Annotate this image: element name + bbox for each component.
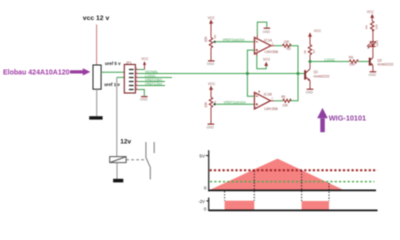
wire VREF1 stub: [138, 85, 165, 87]
wire VREF2 from R2 wiper to IC1A: [215, 41, 254, 43]
switch contact: [146, 142, 154, 179]
svg-text:330: 330: [374, 24, 378, 29]
LED above Q2: [367, 39, 379, 48]
svg-text:VCC: VCC: [367, 10, 375, 14]
upper axis vertical: [208, 150, 210, 191]
wire IC1B output to R5: [274, 100, 283, 102]
dotted vertical pulse2 right: [328, 183, 330, 201]
svg-text:5V: 5V: [199, 154, 206, 159]
svg-text:vcc 12 v: vcc 12 v: [83, 15, 110, 22]
junction node at x=247.4: [246, 72, 249, 75]
waveform chart: [198, 150, 377, 212]
junction node Q1 collector: [309, 60, 312, 63]
wire VREF2 stub: [138, 81, 165, 83]
wire relay to ground: [116, 163, 118, 179]
wire VREF1 from R1 wiper to IC1B: [215, 103, 254, 105]
wiper arrow: [213, 41, 216, 44]
op-amp IC1A: [247, 22, 278, 73]
5V tick: [206, 155, 209, 157]
output stub: [271, 45, 275, 47]
wiper arrow: [213, 103, 216, 106]
svg-text:LMV358: LMV358: [265, 50, 278, 54]
sensor block (rectangle): [93, 65, 101, 89]
svg-text:VCC: VCC: [208, 82, 216, 86]
transistor Q1: [304, 62, 329, 95]
svg-text:GND: GND: [140, 98, 148, 102]
svg-text:LOGIC: LOGIC: [324, 58, 335, 62]
power top pin to GND bracket: [256, 35, 258, 38]
VCC symbol above connector: [138, 57, 149, 69]
top input wire up to bus junction: [247, 74, 254, 97]
wire IC1A output to R3: [275, 45, 283, 47]
wire down to relay: [116, 77, 118, 156]
svg-text:R3: R3: [287, 47, 291, 51]
wire R3 to junction: [290, 46, 298, 74]
svg-text:VCC: VCC: [141, 57, 149, 61]
trimmer R1 column: [204, 82, 217, 130]
svg-text:R4: R4: [365, 25, 369, 29]
VCC above R4: [371, 16, 373, 21]
svg-text:IC1B: IC1B: [264, 93, 273, 97]
svg-text:10K: 10K: [204, 101, 208, 108]
resistor R1 zigzag: [209, 97, 212, 107]
svg-text:R5: R5: [281, 95, 285, 99]
lower baseline: [209, 209, 378, 211]
svg-text:mmbt2222: mmbt2222: [314, 74, 330, 78]
ground bar (black) under sensor block: [89, 116, 102, 119]
svg-text:LMV358: LMV358: [264, 107, 277, 111]
svg-text:GND: GND: [306, 91, 314, 95]
svg-text:Q1: Q1: [314, 70, 319, 74]
resistor R5: [283, 99, 292, 102]
svg-text:LED1: LED1: [375, 39, 379, 46]
wire VCC red from label to sensor block: [96, 25, 98, 66]
svg-text:GND: GND: [369, 73, 377, 77]
svg-text:2K: 2K: [303, 50, 307, 54]
dotted vertical pulse1 right: [253, 171, 255, 201]
resistor R6: [349, 60, 358, 63]
svg-text:JP1: JP1: [126, 61, 132, 65]
dashed link relay to switch: [126, 159, 144, 161]
lower axis vertical: [208, 198, 210, 212]
svg-text:WIG-10101: WIG-10101: [329, 113, 366, 122]
wire SIGNAL bus: [138, 73, 304, 75]
svg-text:VREF2(pk10v): VREF2(pk10v): [222, 38, 244, 42]
pulse 2: [302, 201, 329, 210]
resistor R2 zigzag: [209, 38, 212, 48]
-2V tick: [206, 200, 208, 202]
svg-text:uref 5 v: uref 5 v: [105, 61, 121, 66]
wire LOGIC to R6: [310, 61, 349, 63]
wire uref5 green to connector: [101, 71, 124, 73]
svg-text:VREF1(pk10v): VREF1(pk10v): [224, 101, 246, 105]
svg-text:Elobau 424A10A120: Elobau 424A10A120: [3, 70, 70, 77]
svg-text:12v: 12v: [120, 139, 131, 146]
red dashed threshold: [210, 169, 378, 171]
wire R6 to Q2 base: [358, 61, 369, 63]
svg-text:R6: R6: [349, 55, 353, 59]
GND under Q1: [307, 88, 314, 90]
triangle wave fill: [210, 159, 344, 190]
output stub: [271, 100, 275, 102]
ground bar (black) under relay: [113, 179, 123, 183]
svg-text:R2: R2: [213, 34, 217, 38]
input marks: [256, 41, 258, 43]
svg-text:uref 1 v: uref 1 v: [104, 82, 120, 87]
svg-text:R7: R7: [312, 49, 316, 53]
connector pin numbers: [136, 68, 138, 90]
resistor R3: [283, 44, 292, 47]
wire sensor block bottom: [96, 89, 98, 116]
junction node at x=298: [297, 72, 300, 75]
svg-text:GND: GND: [263, 30, 271, 34]
bottom input wire down to bus: [247, 50, 254, 73]
svg-text:mmbt2222: mmbt2222: [377, 63, 393, 67]
purple up arrow WIG: [317, 108, 328, 118]
svg-text:10K: 10K: [284, 40, 291, 44]
svg-text:VCC: VCC: [314, 29, 322, 33]
GND under R2: [208, 60, 215, 62]
svg-text:-2V: -2V: [198, 199, 205, 204]
GND under Q2: [370, 71, 377, 73]
power bottom pin to VCC: [256, 53, 258, 56]
svg-text:GND: GND: [207, 62, 215, 66]
connector pins (black ticks + red stubs): [129, 70, 134, 90]
wire R5 to junction: [290, 74, 298, 101]
connector JP1: [124, 61, 135, 93]
upper baseline: [209, 189, 376, 191]
GND symbol below connector: [138, 90, 148, 102]
relay coil: [110, 157, 126, 163]
dotted vertical pulse2 left: [301, 171, 303, 201]
wire LOGIC stub: [138, 77, 172, 79]
purple block arrow pointing right: [70, 68, 90, 75]
dotted vertical pulse1 left: [224, 191, 226, 200]
resistor R4 above LED: [365, 10, 379, 42]
svg-text:VCC: VCC: [208, 16, 216, 20]
svg-text:GND: GND: [206, 126, 214, 130]
pulse 1: [225, 201, 255, 211]
svg-text:0: 0: [204, 185, 207, 190]
GND under R1: [208, 123, 215, 125]
op-amp IC1B: [247, 74, 277, 111]
trimmer R2 column: [204, 16, 217, 66]
resistor R7 above Q1: [303, 29, 321, 61]
transistor Q2: [369, 48, 394, 77]
svg-text:10K: 10K: [204, 35, 208, 42]
wire uref1 green to connector: [117, 76, 125, 78]
green dashed threshold: [210, 181, 374, 183]
svg-text:VCC: VCC: [263, 57, 271, 61]
svg-text:20K: 20K: [349, 63, 356, 67]
svg-text:10K: 10K: [282, 104, 289, 108]
